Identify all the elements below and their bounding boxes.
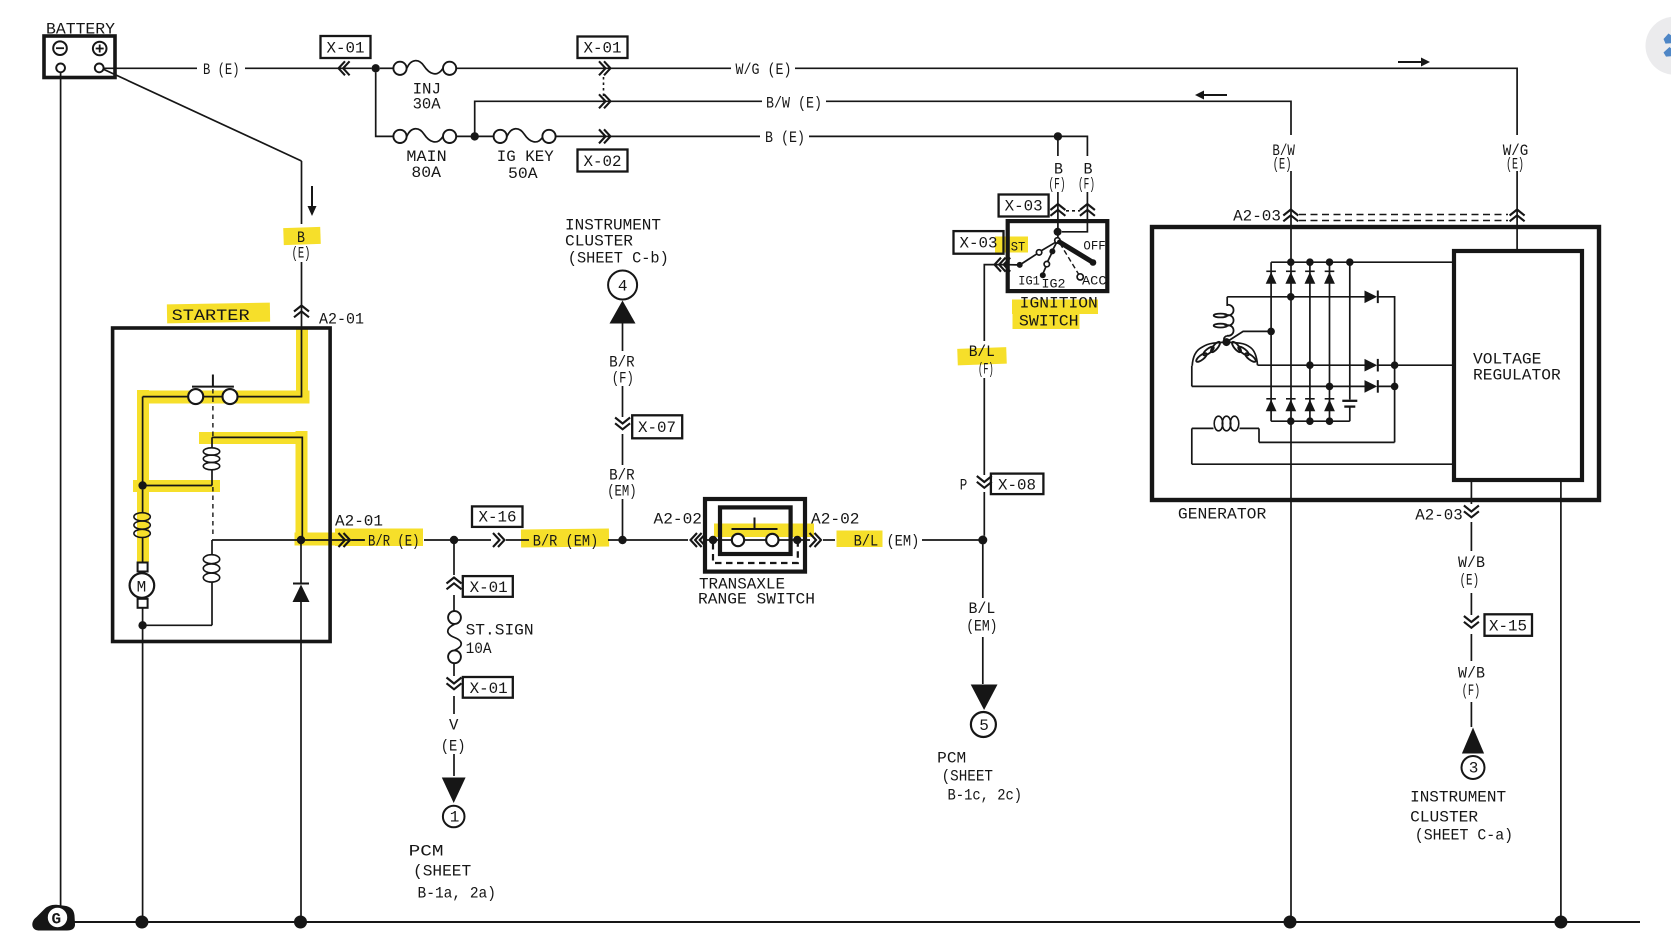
svg-text:50A: 50A bbox=[508, 165, 538, 183]
svg-text:STARTER: STARTER bbox=[172, 307, 250, 325]
svg-text:B-1c, 2c): B-1c, 2c) bbox=[948, 787, 1023, 805]
svg-text:A2-02: A2-02 bbox=[654, 511, 703, 529]
svg-text:GENERATOR: GENERATOR bbox=[1178, 506, 1267, 524]
svg-text:(F): (F) bbox=[978, 361, 994, 379]
svg-text:(E): (E) bbox=[441, 738, 466, 756]
svg-text:X-03: X-03 bbox=[960, 235, 998, 253]
svg-text:X-02: X-02 bbox=[584, 153, 622, 171]
svg-text:B-1a, 2a): B-1a, 2a) bbox=[418, 885, 497, 903]
svg-text:(SHEET C-b): (SHEET C-b) bbox=[568, 250, 669, 268]
svg-text:B/L: B/L bbox=[969, 600, 996, 618]
svg-text:W/B: W/B bbox=[1458, 665, 1485, 683]
svg-text:SWITCH: SWITCH bbox=[1019, 313, 1079, 331]
svg-text:IGNITION: IGNITION bbox=[1020, 295, 1098, 313]
svg-text:(SHEET: (SHEET bbox=[942, 768, 993, 786]
svg-text:B (E): B (E) bbox=[203, 61, 240, 79]
svg-text:RANGE SWITCH: RANGE SWITCH bbox=[698, 591, 815, 609]
svg-text:IG2: IG2 bbox=[1042, 277, 1066, 292]
svg-text:X-15: X-15 bbox=[1489, 618, 1527, 636]
svg-text:(E): (E) bbox=[1273, 156, 1292, 174]
svg-text:PCM: PCM bbox=[409, 843, 444, 861]
svg-text:(E): (E) bbox=[1460, 572, 1480, 590]
svg-text:IG KEY: IG KEY bbox=[497, 148, 554, 166]
svg-text:V: V bbox=[449, 717, 459, 735]
svg-text:X-08: X-08 bbox=[998, 477, 1036, 495]
svg-text:B/L (EM): B/L (EM) bbox=[854, 533, 920, 551]
svg-text:A2-02: A2-02 bbox=[811, 511, 860, 529]
svg-text:X-07: X-07 bbox=[638, 419, 676, 437]
svg-text:CLUSTER: CLUSTER bbox=[565, 233, 633, 251]
svg-text:B/R (E): B/R (E) bbox=[368, 533, 420, 551]
svg-text:30A: 30A bbox=[413, 96, 441, 114]
svg-text:(EM): (EM) bbox=[966, 618, 997, 636]
svg-text:IG1: IG1 bbox=[1018, 274, 1040, 289]
svg-text:X-03: X-03 bbox=[1005, 198, 1043, 216]
svg-text:M: M bbox=[137, 579, 147, 597]
svg-text:(F): (F) bbox=[1078, 176, 1095, 194]
svg-text:ST: ST bbox=[1011, 240, 1026, 255]
svg-text:(E): (E) bbox=[1506, 156, 1524, 174]
svg-text:A2-03: A2-03 bbox=[1233, 208, 1281, 226]
svg-text:4: 4 bbox=[618, 278, 628, 296]
svg-text:G: G bbox=[52, 911, 62, 929]
svg-text:B/L: B/L bbox=[969, 343, 995, 361]
svg-text:B (E): B (E) bbox=[765, 129, 805, 147]
svg-text:W/G (E): W/G (E) bbox=[736, 61, 792, 79]
svg-text:A2-01: A2-01 bbox=[319, 311, 364, 329]
svg-text:(SHEET C-a): (SHEET C-a) bbox=[1415, 827, 1513, 845]
svg-text:(SHEET: (SHEET bbox=[413, 863, 471, 881]
svg-text:(EM): (EM) bbox=[607, 483, 636, 501]
svg-text:X-01: X-01 bbox=[327, 40, 365, 58]
svg-text:(F): (F) bbox=[612, 370, 634, 388]
svg-text:X-16: X-16 bbox=[479, 509, 517, 527]
svg-text:X-01: X-01 bbox=[470, 680, 508, 698]
svg-text:X-01: X-01 bbox=[584, 40, 622, 58]
svg-text:(F): (F) bbox=[1462, 682, 1481, 700]
svg-text:REGULATOR: REGULATOR bbox=[1473, 367, 1561, 385]
svg-text:B/W (E): B/W (E) bbox=[766, 94, 822, 112]
svg-text:CLUSTER: CLUSTER bbox=[1410, 809, 1478, 827]
svg-text:(F): (F) bbox=[1049, 176, 1066, 194]
svg-text:X-01: X-01 bbox=[470, 579, 508, 597]
svg-text:(E): (E) bbox=[292, 245, 311, 263]
svg-text:5: 5 bbox=[979, 717, 989, 735]
svg-text:A2-03: A2-03 bbox=[1415, 507, 1462, 525]
svg-text:ST.SIGN: ST.SIGN bbox=[466, 622, 534, 640]
svg-text:PCM: PCM bbox=[937, 750, 966, 768]
svg-text:P: P bbox=[960, 477, 968, 495]
svg-text:INSTRUMENT: INSTRUMENT bbox=[1410, 789, 1506, 807]
svg-text:W/B: W/B bbox=[1458, 554, 1485, 572]
svg-text:A2-01: A2-01 bbox=[335, 513, 383, 531]
svg-text:OFF: OFF bbox=[1083, 239, 1105, 254]
svg-text:10A: 10A bbox=[466, 640, 492, 658]
svg-text:ACC: ACC bbox=[1082, 274, 1107, 289]
svg-text:B/R (EM): B/R (EM) bbox=[533, 533, 599, 551]
svg-text:1: 1 bbox=[450, 809, 460, 827]
svg-text:3: 3 bbox=[1469, 760, 1479, 778]
svg-text:BATTERY: BATTERY bbox=[46, 21, 115, 39]
svg-text:80A: 80A bbox=[411, 164, 441, 182]
